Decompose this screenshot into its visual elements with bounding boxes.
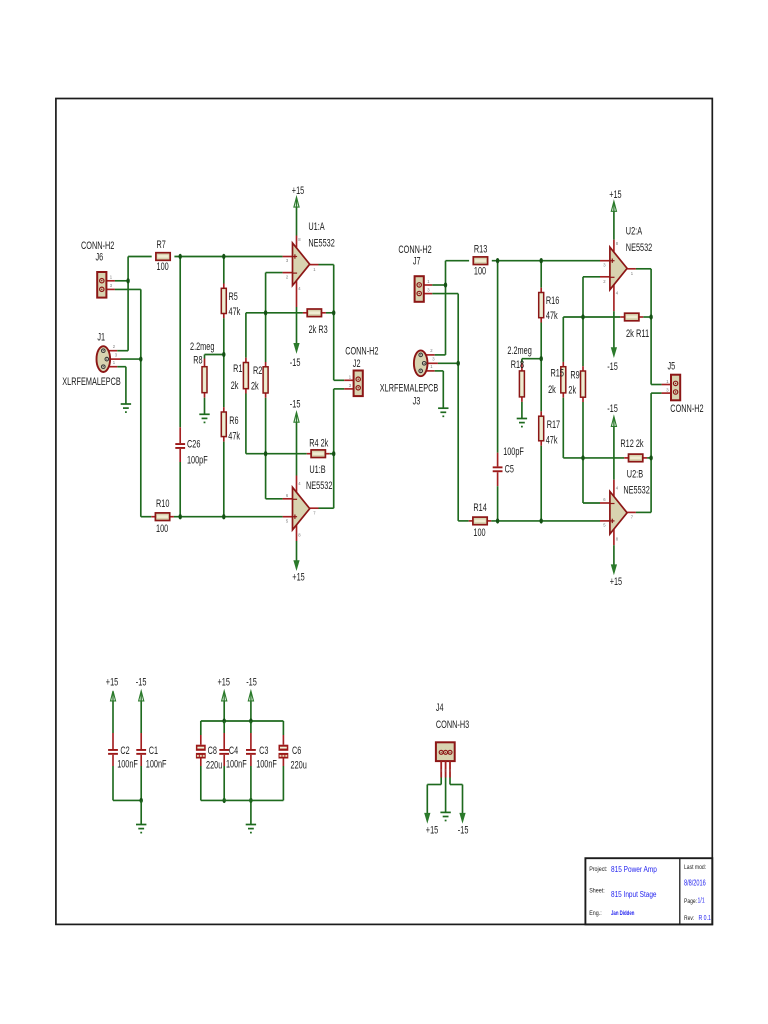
svg-text:J5: J5	[668, 361, 676, 373]
svg-text:Project:: Project:	[589, 866, 607, 873]
svg-text:NE5532: NE5532	[626, 242, 652, 254]
svg-text:J1: J1	[97, 332, 105, 344]
svg-text:R6: R6	[229, 415, 238, 427]
svg-text:Rev:: Rev:	[684, 915, 694, 922]
svg-text:+15: +15	[106, 677, 118, 689]
svg-text:C4: C4	[229, 745, 238, 757]
svg-text:C3: C3	[259, 745, 268, 757]
svg-text:R18: R18	[511, 359, 524, 371]
svg-text:J4: J4	[436, 702, 444, 714]
svg-text:R14: R14	[473, 502, 486, 514]
svg-text:NE5532: NE5532	[308, 238, 334, 250]
svg-text:R15: R15	[551, 367, 564, 379]
svg-text:2k: 2k	[251, 380, 259, 392]
svg-text:C1: C1	[149, 745, 158, 757]
svg-text:+15: +15	[218, 677, 230, 689]
svg-text:-15: -15	[607, 361, 618, 373]
svg-text:R13: R13	[474, 243, 487, 255]
svg-text:220u: 220u	[291, 760, 307, 772]
svg-text:Sheet:: Sheet:	[589, 887, 605, 894]
svg-text:CONN-H2: CONN-H2	[345, 346, 378, 358]
svg-text:Last mod:: Last mod:	[684, 864, 706, 871]
svg-text:Jan Didden: Jan Didden	[611, 910, 634, 917]
svg-text:U2:A: U2:A	[626, 225, 643, 237]
svg-text:1/1: 1/1	[698, 895, 705, 904]
svg-text:2k: 2k	[231, 380, 239, 392]
svg-text:R17: R17	[547, 419, 560, 431]
svg-text:C5: C5	[505, 464, 514, 476]
svg-text:+15: +15	[426, 824, 438, 836]
svg-text:47k: 47k	[228, 430, 240, 442]
svg-text:-15: -15	[136, 677, 147, 689]
svg-text:C6: C6	[292, 745, 301, 757]
svg-text:+15: +15	[292, 185, 304, 197]
svg-text:R4 2k: R4 2k	[309, 437, 329, 449]
svg-text:47k: 47k	[229, 306, 241, 318]
svg-text:R 0.1: R 0.1	[699, 913, 711, 922]
svg-text:2k: 2k	[548, 384, 556, 396]
svg-text:47k: 47k	[546, 435, 558, 447]
svg-text:C2: C2	[120, 745, 129, 757]
svg-text:100: 100	[156, 523, 168, 535]
svg-text:R9: R9	[570, 369, 579, 381]
svg-text:+15: +15	[610, 576, 622, 588]
svg-text:U1:A: U1:A	[308, 221, 325, 233]
svg-text:XLRFEMALEPCB: XLRFEMALEPCB	[62, 376, 121, 388]
svg-text:8/8/2016: 8/8/2016	[684, 878, 706, 887]
svg-text:3: 3	[449, 768, 451, 772]
svg-text:220u: 220u	[206, 760, 222, 772]
svg-text:100nF: 100nF	[256, 759, 277, 771]
svg-text:R10: R10	[156, 498, 169, 510]
svg-text:100: 100	[473, 527, 485, 539]
svg-text:U2:B: U2:B	[627, 468, 643, 480]
svg-text:815 Power Amp: 815 Power Amp	[611, 864, 657, 874]
svg-text:100: 100	[157, 261, 169, 273]
svg-text:2.2meg: 2.2meg	[507, 345, 531, 357]
svg-text:2: 2	[444, 768, 446, 772]
svg-text:XLRFEMALEPCB: XLRFEMALEPCB	[380, 382, 439, 394]
svg-text:CONN-H2: CONN-H2	[670, 403, 703, 415]
svg-text:J3: J3	[413, 396, 421, 408]
svg-text:U1:B: U1:B	[309, 464, 325, 476]
svg-text:100nF: 100nF	[226, 759, 247, 771]
svg-text:47k: 47k	[546, 310, 558, 322]
svg-text:J6: J6	[96, 251, 104, 263]
svg-text:1: 1	[440, 768, 442, 772]
svg-text:R7: R7	[157, 239, 166, 251]
svg-text:Eng.:: Eng.:	[589, 910, 602, 917]
svg-text:2k R11: 2k R11	[626, 328, 649, 340]
svg-text:-15: -15	[290, 357, 301, 369]
svg-text:R5: R5	[229, 291, 238, 303]
svg-text:100pF: 100pF	[503, 446, 524, 458]
svg-text:+15: +15	[609, 189, 621, 201]
svg-text:R16: R16	[546, 295, 559, 307]
svg-text:-15: -15	[607, 403, 618, 415]
svg-text:2.2meg: 2.2meg	[190, 341, 214, 353]
svg-text:100nF: 100nF	[146, 759, 167, 771]
svg-text:J7: J7	[413, 256, 421, 268]
svg-text:100pF: 100pF	[187, 455, 208, 467]
svg-text:R12 2k: R12 2k	[620, 438, 644, 450]
svg-text:NE5532: NE5532	[306, 480, 332, 492]
svg-text:2k: 2k	[568, 385, 576, 397]
svg-text:-15: -15	[458, 824, 469, 836]
svg-text:CONN-H2: CONN-H2	[81, 240, 114, 252]
svg-text:CONN-H3: CONN-H3	[436, 719, 469, 731]
svg-text:C8: C8	[208, 745, 217, 757]
svg-text:100: 100	[474, 265, 486, 277]
svg-text:R2: R2	[253, 365, 262, 377]
svg-text:NE5532: NE5532	[623, 484, 649, 496]
svg-text:-15: -15	[246, 677, 257, 689]
svg-text:J2: J2	[353, 358, 361, 370]
svg-text:100nF: 100nF	[117, 759, 138, 771]
svg-text:C26: C26	[187, 439, 200, 451]
svg-text:2k R3: 2k R3	[309, 324, 328, 336]
svg-text:+15: +15	[292, 572, 304, 584]
svg-text:R1: R1	[233, 363, 242, 375]
svg-text:CONN-H2: CONN-H2	[398, 244, 431, 256]
svg-text:815 Input Stage: 815 Input Stage	[611, 889, 657, 899]
svg-text:R8: R8	[193, 355, 202, 367]
svg-text:Page:: Page:	[684, 898, 697, 905]
svg-text:-15: -15	[290, 399, 301, 411]
